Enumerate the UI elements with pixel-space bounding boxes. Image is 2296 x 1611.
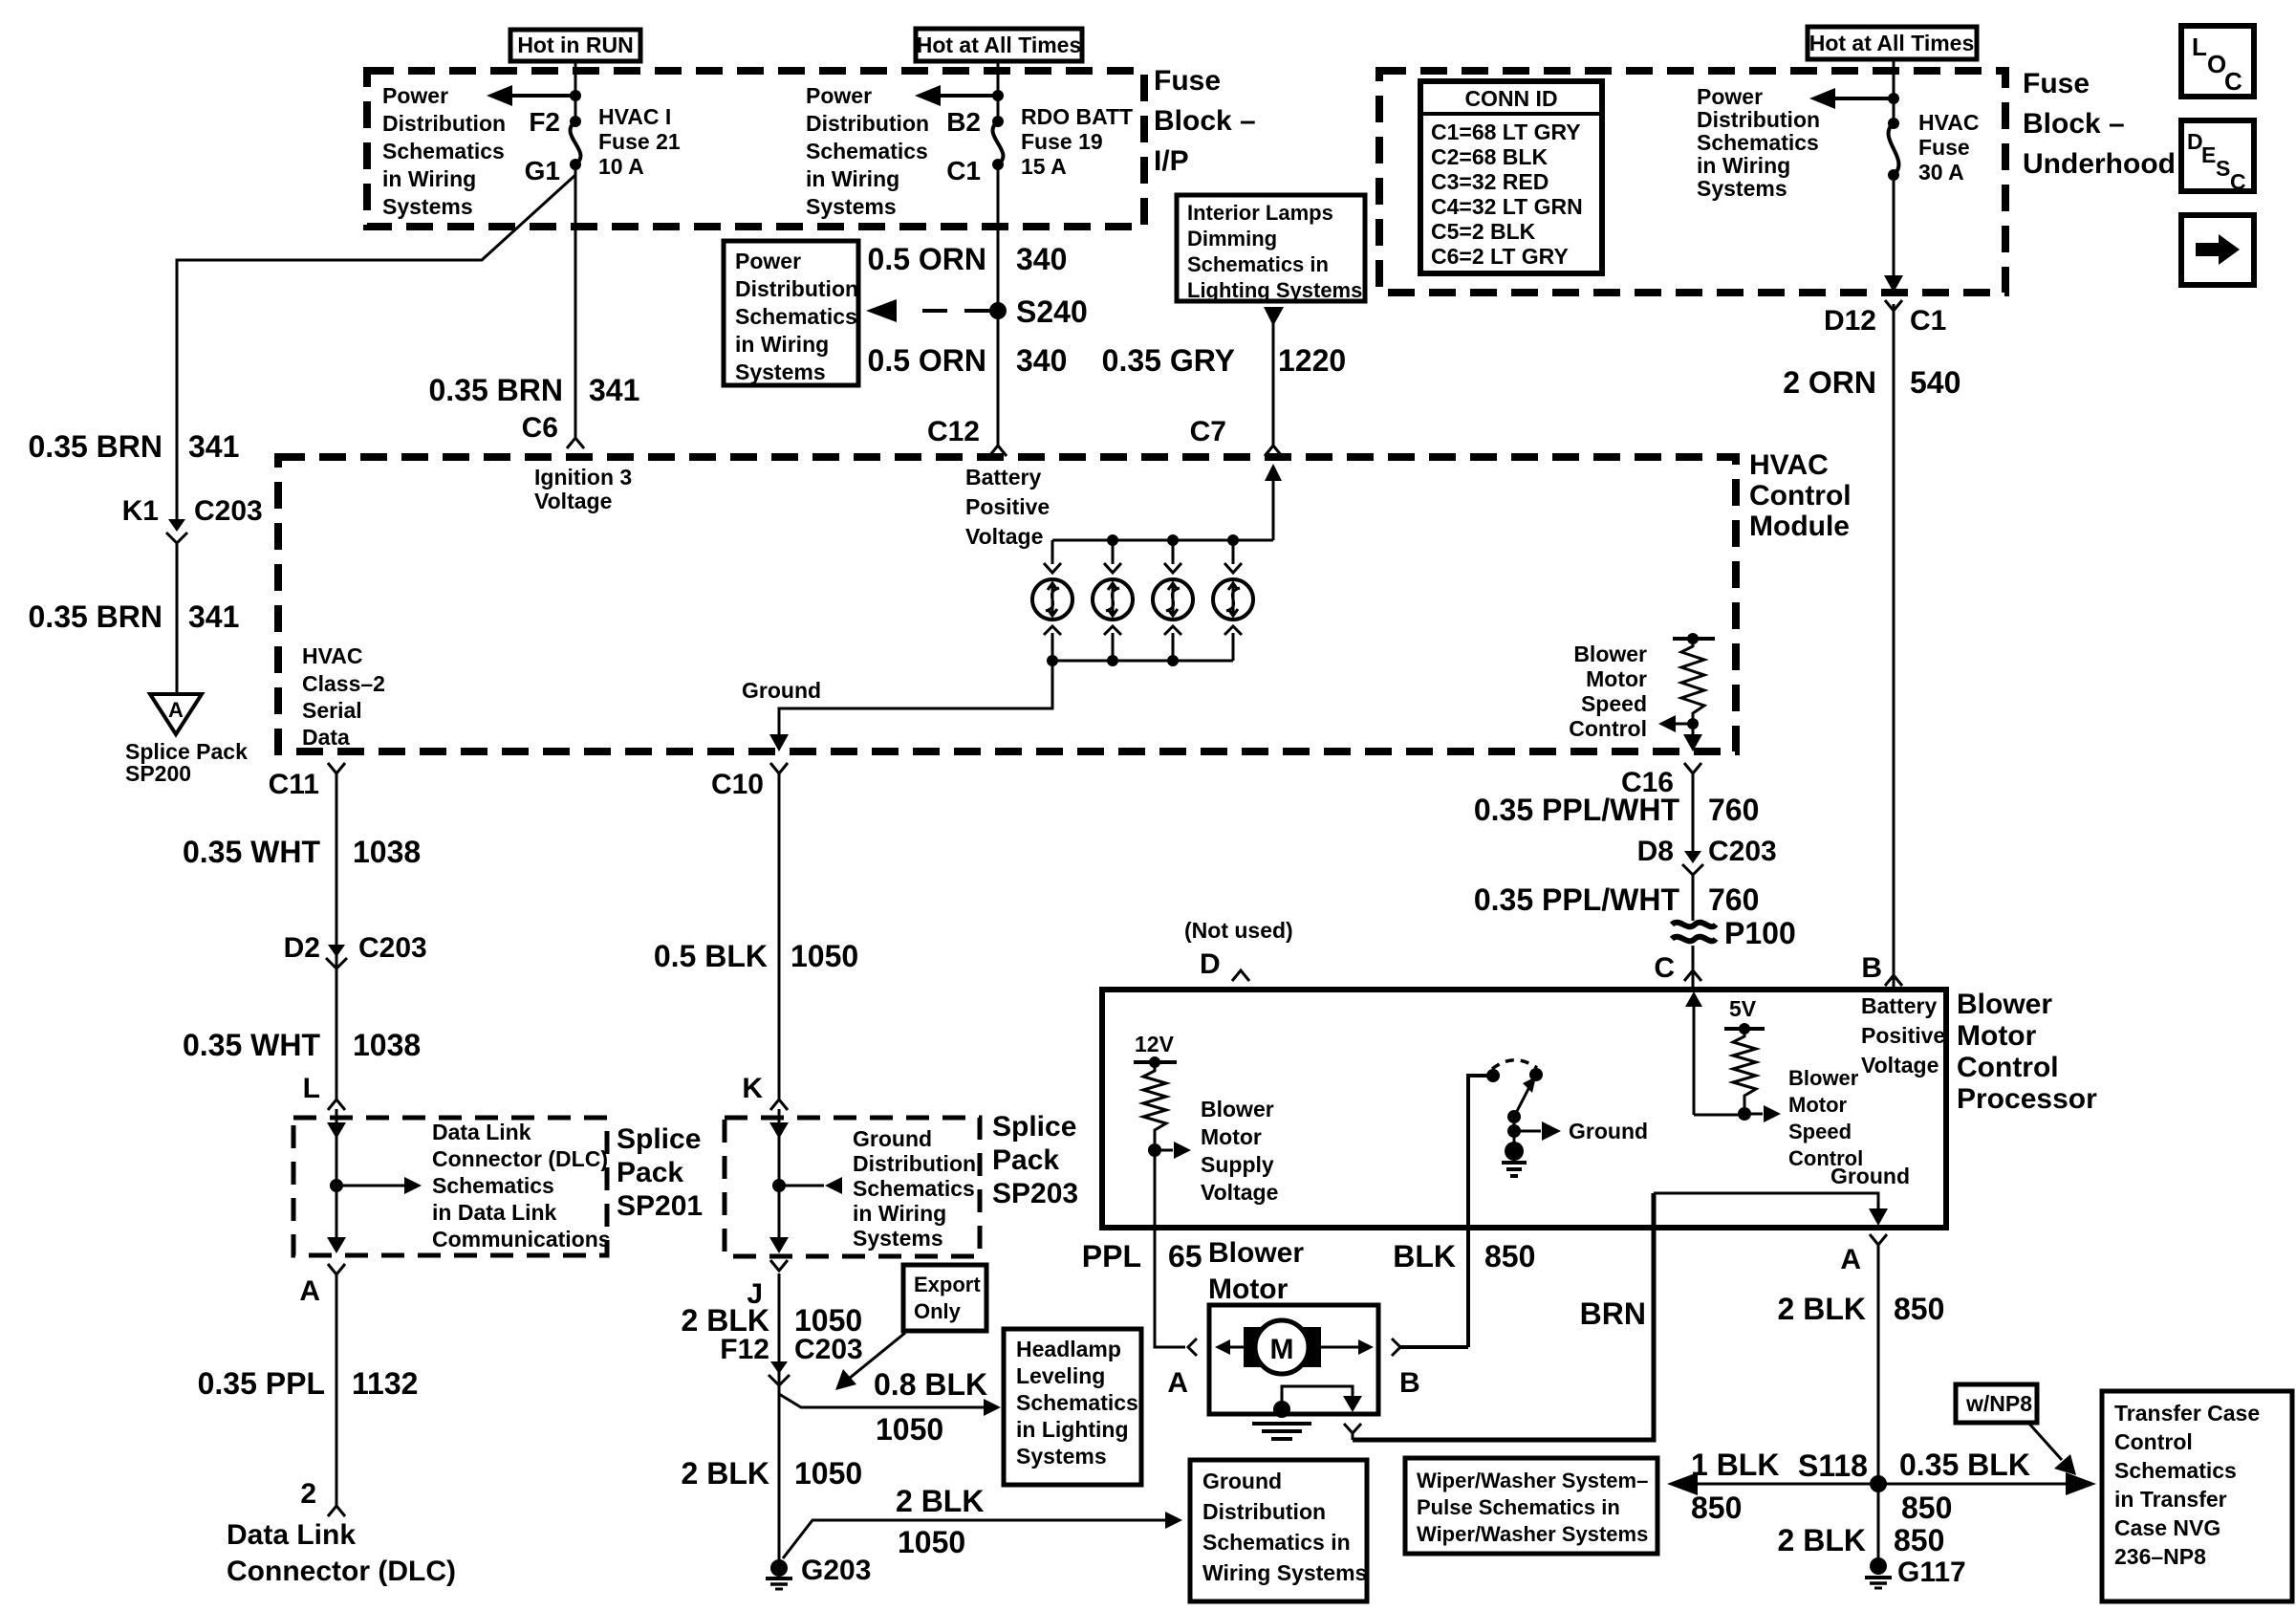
svg-text:in Wiring: in Wiring (853, 1201, 946, 1226)
svg-text:Supply: Supply (1201, 1152, 1274, 1177)
svg-text:0.5 ORN: 0.5 ORN (868, 242, 986, 276)
svg-text:CONN ID: CONN ID (1464, 86, 1557, 111)
svg-text:Blower: Blower (1573, 642, 1647, 666)
wire arrow to power distribution (middle) (915, 85, 1004, 106)
svg-text:Lighting Systems: Lighting Systems (1187, 278, 1362, 302)
wire S118 to G117 (1877, 1484, 1880, 1558)
svg-text:Positive: Positive (965, 494, 1050, 519)
svg-text:Ground: Ground (1830, 1164, 1910, 1188)
wire fuse21 down to C6 (574, 164, 577, 438)
svg-text:D12: D12 (1824, 305, 1876, 337)
connector C10 (711, 763, 788, 800)
note box Ground Distribution (bottom) (1190, 1460, 1367, 1601)
arrow from Export Only (835, 1333, 905, 1390)
lamp 3 (1153, 540, 1193, 661)
svg-text:0.35 PPL/WHT: 0.35 PPL/WHT (1474, 793, 1680, 827)
label 0.35 WHT 1038 (lower) (183, 1028, 421, 1062)
svg-text:Distribution: Distribution (1202, 1499, 1326, 1524)
svg-text:Underhood: Underhood (2023, 148, 2176, 180)
wire branch diagonal to left run (177, 175, 575, 519)
svg-text:Motor: Motor (1788, 1093, 1848, 1117)
connector C16 (1621, 763, 1701, 798)
svg-text:C: C (1654, 952, 1675, 984)
svg-text:C11: C11 (269, 769, 319, 800)
label 2 ORN 540 (1783, 365, 1960, 400)
ground G203 (766, 1555, 871, 1589)
svg-text:Hot at All Times: Hot at All Times (917, 33, 1082, 57)
connector C11 (269, 763, 345, 800)
svg-text:Data Link: Data Link (432, 1120, 531, 1144)
label 0.35 WHT 1038 (upper) (183, 835, 421, 869)
svg-text:10 A: 10 A (598, 154, 644, 179)
svg-text:341: 341 (188, 599, 239, 634)
svg-text:12V: 12V (1135, 1032, 1175, 1056)
svg-text:Splice: Splice (617, 1123, 701, 1155)
svg-text:HVAC: HVAC (302, 643, 362, 668)
label HVAC Control Module (1749, 449, 1852, 542)
HVAC control module dashed box (278, 457, 1736, 751)
svg-text:Schematics: Schematics (432, 1173, 554, 1198)
svg-text:A: A (1840, 1244, 1861, 1275)
svg-text:Dimming: Dimming (1187, 227, 1277, 250)
svg-text:Pack: Pack (617, 1157, 683, 1188)
svg-text:S: S (2216, 156, 2230, 181)
wire C7 riser inside box with up arrow (1265, 464, 1282, 540)
connector D12 / C1 (1824, 300, 1946, 337)
svg-text:D: D (1200, 948, 1221, 980)
svg-text:A: A (1167, 1367, 1188, 1399)
svg-text:C: C (2224, 67, 2242, 96)
svg-text:SP201: SP201 (617, 1190, 703, 1222)
connector C7 (1190, 416, 1282, 456)
svg-text:A: A (299, 1275, 320, 1307)
svg-text:SP200: SP200 (125, 761, 191, 786)
svg-text:S240: S240 (1016, 294, 1088, 329)
lamp 4 (1213, 540, 1253, 661)
svg-text:Transfer Case: Transfer Case (2114, 1401, 2260, 1426)
note: Power Distribution Schematics (middle) (806, 83, 929, 219)
svg-text:Distribution: Distribution (382, 111, 506, 136)
svg-text:30 A: 30 A (1918, 160, 1964, 185)
connector A (DLC) (299, 1264, 345, 1307)
svg-text:B: B (1861, 952, 1882, 984)
svg-text:Module: Module (1749, 511, 1850, 542)
motor internal ground path (1252, 1386, 1362, 1439)
wire processor ground run (1654, 1193, 1888, 1226)
label 0.35 BRN 341 (left wire lower) (29, 599, 240, 634)
svg-text:E: E (2201, 142, 2216, 167)
svg-text:Schematics in: Schematics in (1187, 252, 1329, 276)
svg-text:Systems: Systems (806, 194, 897, 219)
svg-text:Distribution: Distribution (1697, 107, 1820, 132)
connector C (processor) (1654, 952, 1701, 984)
svg-text:SP203: SP203 (992, 1178, 1078, 1209)
wire C16 to D8 (1692, 773, 1695, 851)
label 2 BLK 1050 / F12 C203 (682, 1303, 863, 1385)
svg-text:in Wiring: in Wiring (382, 166, 476, 191)
svg-text:1050: 1050 (794, 1303, 862, 1338)
svg-text:G203: G203 (801, 1555, 871, 1586)
label 0.5 ORN 340 (above S240) (868, 242, 1068, 276)
svg-text:Ground: Ground (1569, 1119, 1648, 1143)
svg-text:1050: 1050 (794, 1456, 862, 1491)
note box Export Only (903, 1265, 986, 1331)
svg-text:0.5 BLK: 0.5 BLK (654, 939, 768, 973)
svg-text:Interior Lamps: Interior Lamps (1187, 201, 1333, 225)
svg-text:Schematics: Schematics (1016, 1390, 1138, 1415)
svg-text:A: A (168, 698, 184, 722)
svg-text:1038: 1038 (353, 1028, 421, 1062)
svg-text:850: 850 (1894, 1292, 1944, 1326)
connector J (747, 1260, 788, 1310)
svg-text:K: K (742, 1073, 763, 1104)
svg-text:Blower: Blower (1208, 1237, 1304, 1269)
svg-text:Schematics: Schematics (853, 1176, 975, 1201)
svg-text:C12: C12 (927, 416, 980, 447)
svg-text:Motor: Motor (1586, 666, 1647, 691)
svg-text:C1: C1 (1910, 305, 1946, 337)
wire branch 2 BLK to ground distribution (783, 1484, 1182, 1559)
svg-text:Schematics in: Schematics in (1202, 1530, 1351, 1555)
svg-text:850: 850 (1484, 1239, 1535, 1274)
svg-text:2 BLK: 2 BLK (896, 1484, 984, 1518)
svg-text:0.35 PPL: 0.35 PPL (198, 1366, 325, 1401)
svg-text:2 BLK: 2 BLK (1778, 1523, 1866, 1557)
wire into SP201 with arrow (327, 1109, 422, 1253)
DESC box (2181, 120, 2254, 194)
label 0.35 BRN 341 (left wire upper) (29, 429, 240, 464)
svg-text:Blower: Blower (1788, 1066, 1859, 1090)
connector K (742, 1073, 788, 1110)
svg-text:Schematics: Schematics (1697, 130, 1819, 155)
svg-text:Positive: Positive (1861, 1023, 1945, 1048)
svg-text:in Transfer: in Transfer (2114, 1487, 2227, 1512)
wire lamp top bus (1052, 539, 1273, 542)
svg-text:1038: 1038 (353, 835, 421, 869)
svg-text:2 ORN: 2 ORN (1783, 365, 1876, 400)
svg-text:2 BLK: 2 BLK (682, 1456, 769, 1491)
svg-text:Distribution: Distribution (806, 111, 929, 136)
terminal B chevron (1392, 1339, 1400, 1356)
svg-text:0.35 BLK: 0.35 BLK (1899, 1448, 2030, 1482)
svg-text:HVAC: HVAC (1749, 449, 1829, 481)
arrow from w/NP8 to wire (2028, 1423, 2076, 1475)
svg-text:760: 760 (1708, 882, 1759, 917)
label 0.35 PPL 1132 (198, 1366, 419, 1401)
svg-text:Motor: Motor (1208, 1274, 1289, 1305)
svg-text:Headlamp: Headlamp (1016, 1337, 1121, 1361)
pin 2 (DLC) (300, 1478, 345, 1516)
svg-text:Ground: Ground (853, 1126, 932, 1151)
label box "Hot in RUN" (510, 30, 640, 61)
svg-text:0.35 BRN: 0.35 BRN (429, 373, 564, 407)
svg-text:Power: Power (1697, 84, 1763, 109)
svg-text:Hot in RUN: Hot in RUN (517, 33, 633, 57)
svg-text:in Lighting: in Lighting (1016, 1417, 1129, 1442)
svg-text:Connector (DLC): Connector (DLC) (227, 1556, 456, 1587)
svg-text:5V: 5V (1729, 996, 1757, 1021)
svg-text:Schematics: Schematics (382, 139, 505, 163)
svg-text:2 BLK: 2 BLK (1778, 1292, 1866, 1326)
svg-text:Control: Control (1957, 1052, 2059, 1083)
svg-text:1050: 1050 (791, 939, 858, 973)
ground symbol (switch) (1502, 1131, 1527, 1176)
wire A to DLC pin 2 (336, 1274, 338, 1507)
label Blower Motor Control Processor (1957, 989, 2097, 1115)
connector D2 C203 (284, 932, 427, 969)
svg-text:340: 340 (1016, 242, 1067, 276)
label 2 BLK 850 (lower) (1778, 1523, 1945, 1557)
fuse F19 (RDO BATT Fuse 19 15 A) (992, 104, 1133, 179)
svg-text:w/NP8: w/NP8 (1965, 1391, 2032, 1416)
fuse F21 (HVAC I Fuse 21 10 A) (570, 104, 681, 179)
svg-text:850: 850 (1901, 1491, 1952, 1525)
svg-text:Motor: Motor (1201, 1124, 1262, 1149)
wire 0.35 BLK 850 to transfer case (right arrow) (1885, 1448, 2096, 1525)
svg-text:F12: F12 (720, 1334, 769, 1365)
CONN ID table (1420, 81, 1602, 273)
svg-text:F2: F2 (529, 107, 560, 137)
LOC box (2181, 26, 2254, 97)
svg-text:850: 850 (1691, 1491, 1742, 1525)
ground G117 (1865, 1557, 1966, 1588)
svg-text:BLK: BLK (1393, 1239, 1456, 1274)
svg-text:Distribution: Distribution (853, 1151, 976, 1176)
svg-text:in Data Link: in Data Link (432, 1200, 557, 1225)
svg-text:2 BLK: 2 BLK (682, 1303, 769, 1338)
svg-text:Ignition 3: Ignition 3 (534, 465, 632, 490)
note: Power Distribution Schematics (left) (382, 83, 506, 219)
wire arrow to power distribution (right) (1809, 88, 1899, 109)
wire from Hot at All Times (right) to fuse 30 (1893, 59, 1895, 123)
svg-text:Fuse: Fuse (2023, 68, 2090, 99)
svg-text:Ground: Ground (1202, 1469, 1282, 1493)
svg-text:Export: Export (914, 1273, 981, 1296)
label Blower Motor (1208, 1237, 1304, 1305)
svg-text:Systems: Systems (382, 194, 473, 219)
wire 1 BLK 850 to wiper systems (left arrow) (1667, 1448, 1872, 1525)
node Blower Motor Supply Voltage (1201, 1097, 1278, 1205)
label 0.5 ORN 340 (below S240) (868, 343, 1068, 378)
svg-text:Control: Control (2114, 1429, 2193, 1454)
svg-text:Blower: Blower (1957, 989, 2052, 1020)
label 0.35 PPL/WHT 760 (upper) (1474, 793, 1760, 827)
svg-text:Ground: Ground (742, 678, 821, 703)
label Splice Pack SP201 (617, 1123, 703, 1222)
svg-text:B2: B2 (946, 107, 981, 137)
wire from Hot at All Times to fuse 19 (997, 61, 1000, 121)
svg-text:340: 340 (1016, 343, 1067, 378)
svg-text:Fuse 21: Fuse 21 (598, 129, 681, 154)
svg-text:Case NVG: Case NVG (2114, 1515, 2220, 1540)
svg-text:Control: Control (1569, 716, 1647, 741)
fuse block I/P dashed box (367, 71, 1144, 227)
svg-text:0.35 WHT: 0.35 WHT (183, 1028, 320, 1062)
svg-text:Power: Power (735, 249, 801, 273)
svg-text:Serial: Serial (302, 698, 362, 723)
node Battery Positive Voltage (processor) (1861, 993, 1945, 1078)
wire C10 to K (778, 773, 781, 1099)
svg-text:15 A: 15 A (1021, 154, 1067, 179)
fuse block underhood dashed box (1379, 71, 2005, 293)
svg-text:Schematics: Schematics (806, 139, 928, 163)
lamp 2 (1093, 540, 1133, 661)
svg-text:in Wiring: in Wiring (1697, 153, 1790, 178)
svg-text:Hot at All Times: Hot at All Times (1809, 31, 1975, 55)
wire to splice pack SP200 (176, 541, 179, 694)
label Fuse Block - Underhood (2023, 68, 2176, 180)
svg-text:C4=32 LT GRN: C4=32 LT GRN (1431, 194, 1583, 219)
svg-text:0.35 WHT: 0.35 WHT (183, 835, 320, 869)
svg-text:I/P: I/P (1154, 145, 1189, 177)
connector C6 (522, 412, 584, 448)
node HVAC Class-2 Serial Data (302, 643, 385, 750)
svg-text:Power: Power (382, 83, 448, 108)
svg-text:Power: Power (806, 83, 872, 108)
connector D8 C203 (1637, 836, 1777, 875)
wire C arrow into processor (1685, 991, 1744, 1115)
svg-text:Schematics: Schematics (2114, 1458, 2237, 1483)
switch (speed control relay contact) (1468, 1060, 1543, 1347)
wire 2 ORN 540 long vertical to B (1893, 304, 1895, 990)
svg-text:Block –: Block – (2023, 108, 2125, 140)
blower motor control processor box (1102, 990, 1946, 1228)
svg-text:C7: C7 (1190, 416, 1226, 447)
svg-text:Pulse Schematics in: Pulse Schematics in (1417, 1495, 1620, 1519)
svg-text:760: 760 (1708, 793, 1759, 827)
wire branch 0.8 BLK to headlamp leveling (779, 1367, 1001, 1447)
svg-text:in Wiring: in Wiring (806, 166, 899, 191)
svg-text:236–NP8: 236–NP8 (2114, 1544, 2206, 1569)
svg-text:341: 341 (188, 429, 239, 464)
note box w/NP8 (1956, 1384, 2037, 1423)
wire from interior lamps to C7 with down arrow (1264, 307, 1284, 446)
svg-text:C203: C203 (794, 1334, 863, 1365)
svg-text:Motor: Motor (1957, 1020, 2037, 1052)
svg-text:1 BLK: 1 BLK (1691, 1448, 1779, 1482)
fuse F30 (HVAC Fuse 30 A) (1888, 110, 1979, 185)
svg-text:Systems: Systems (735, 359, 826, 384)
svg-text:0.35 BRN: 0.35 BRN (29, 429, 163, 464)
svg-text:Speed: Speed (1788, 1120, 1852, 1143)
svg-text:C203: C203 (194, 495, 263, 527)
motor M1 box (1209, 1305, 1378, 1414)
svg-text:Wiper/Washer System–: Wiper/Washer System– (1417, 1469, 1648, 1492)
svg-text:Voltage: Voltage (1861, 1053, 1939, 1078)
splice pack SP201 dashed box (293, 1118, 607, 1255)
label 0.35 GRY 1220 (1102, 343, 1347, 378)
svg-text:Control: Control (1749, 480, 1852, 512)
svg-text:Systems: Systems (1697, 176, 1787, 201)
svg-text:2: 2 (300, 1478, 316, 1510)
label PPL 65 (1082, 1239, 1202, 1274)
svg-text:1050: 1050 (898, 1525, 965, 1559)
svg-text:Battery: Battery (1861, 993, 1937, 1018)
label 0.35 BRN 341 (upper, at fuse wire) (429, 373, 640, 407)
connector B (processor) (1861, 952, 1902, 986)
note: Ground Distribution Schematics (SP203) (853, 1126, 976, 1251)
resistor 12V pull-up (1134, 1032, 1191, 1159)
svg-text:65: 65 (1168, 1239, 1202, 1274)
svg-text:L: L (2192, 33, 2207, 61)
svg-text:850: 850 (1894, 1523, 1944, 1557)
arrow box (2181, 215, 2254, 285)
svg-text:0.8 BLK: 0.8 BLK (874, 1367, 987, 1402)
wire P100 to C (1692, 946, 1695, 990)
wire 12V node down to motor A (1155, 1150, 1185, 1347)
svg-text:Block –: Block – (1154, 105, 1256, 137)
svg-text:1220: 1220 (1278, 343, 1346, 378)
svg-text:Voltage: Voltage (965, 524, 1043, 549)
svg-text:Distribution: Distribution (735, 276, 858, 301)
label Fuse Block - I/P (1154, 65, 1256, 177)
svg-text:Wiper/Washer Systems: Wiper/Washer Systems (1417, 1522, 1648, 1546)
note: Data Link Connector (DLC) Schematics (432, 1120, 611, 1252)
note box: Interior Lamps Dimming Schematics in Lighting Systems (1177, 195, 1365, 302)
svg-text:Wiring Systems: Wiring Systems (1202, 1560, 1367, 1585)
svg-text:1132: 1132 (352, 1366, 418, 1401)
svg-text:D8: D8 (1637, 836, 1674, 867)
svg-text:C5=2 BLK: C5=2 BLK (1431, 219, 1536, 244)
svg-text:P100: P100 (1724, 916, 1796, 950)
svg-text:Fuse 19: Fuse 19 (1021, 129, 1103, 154)
svg-text:C6: C6 (522, 412, 558, 444)
svg-text:Only: Only (914, 1299, 962, 1323)
node Ignition 3 Voltage (534, 465, 632, 513)
wire J down to G203 (778, 1274, 781, 1560)
svg-text:Pack: Pack (992, 1144, 1059, 1176)
wire fuse30 down with arrow to box edge (1884, 175, 1903, 293)
label 2 BLK 1050 (lower) (682, 1456, 863, 1491)
svg-text:Voltage: Voltage (534, 489, 612, 513)
connector A (processor) (1840, 1234, 1887, 1275)
note box Headlamp Leveling (1004, 1329, 1141, 1485)
svg-text:HVAC I: HVAC I (598, 104, 671, 129)
wire fuse19 down to C12 (997, 164, 1000, 446)
svg-text:Battery: Battery (965, 465, 1041, 490)
connector K1 C203 (122, 495, 263, 543)
terminal A chevron (1188, 1339, 1197, 1356)
note box: Power Distribution Schematics in Wiring Systems (solid) (724, 241, 858, 385)
svg-text:B: B (1399, 1367, 1420, 1399)
svg-text:D2: D2 (284, 932, 320, 964)
svg-text:Data Link: Data Link (227, 1519, 356, 1551)
svg-text:Processor: Processor (1957, 1083, 2097, 1115)
grommet P100 (1672, 916, 1796, 950)
svg-text:C3=32 RED: C3=32 RED (1431, 169, 1549, 194)
motor symbol (1215, 1320, 1374, 1374)
resistor 5V pull-up (1724, 996, 1781, 1122)
terminal D (Not used) (1184, 918, 1293, 981)
svg-text:C1=68 LT GRY: C1=68 LT GRY (1431, 120, 1581, 144)
svg-text:BRN: BRN (1580, 1296, 1646, 1331)
wire lamp bottom bus (1052, 660, 1233, 663)
wire into SP203 with arrows (769, 1109, 842, 1253)
svg-text:Speed: Speed (1581, 691, 1647, 716)
svg-text:G117: G117 (1897, 1557, 1966, 1588)
label box "Hot at All Times" (right) (1808, 27, 1977, 59)
label box "Hot at All Times" (916, 29, 1082, 61)
svg-text:C2=68 BLK: C2=68 BLK (1431, 144, 1548, 169)
svg-text:C1: C1 (946, 156, 981, 185)
svg-text:540: 540 (1910, 365, 1960, 400)
svg-text:Fuse: Fuse (1154, 65, 1221, 97)
svg-text:C: C (2230, 169, 2246, 194)
svg-text:HVAC: HVAC (1918, 110, 1979, 135)
svg-text:Blower: Blower (1201, 1097, 1274, 1121)
wire from Hot in RUN to fuse 21 (574, 61, 577, 121)
node Battery Positive Voltage (965, 465, 1050, 549)
